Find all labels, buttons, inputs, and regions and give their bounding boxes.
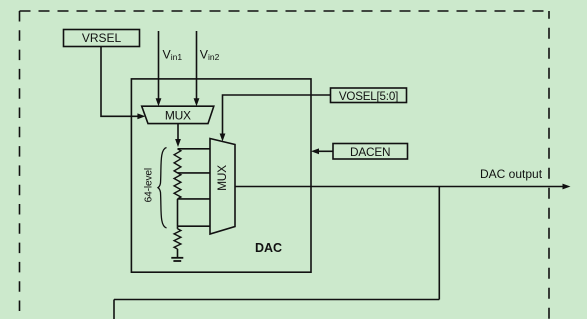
svg-text:MUX: MUX — [165, 109, 191, 123]
node tap 1 wire — [178, 148, 211, 150]
wire feedback exit — [113, 300, 115, 319]
node tap 2 wire — [178, 172, 211, 174]
ground — [171, 258, 183, 261]
wire ladder continuation — [177, 199, 179, 226]
DAC block box — [131, 79, 311, 272]
wire DACEN enable — [311, 148, 333, 154]
svg-text:64-level: 64-level — [143, 168, 154, 202]
svg-text:DAC: DAC — [255, 241, 282, 255]
wire Vin2 input — [194, 31, 200, 106]
node tap 3 wire — [178, 198, 211, 200]
svg-text:MUX: MUX — [215, 165, 229, 191]
wire DAC output — [235, 184, 571, 190]
resistor R2 — [174, 173, 181, 199]
brace 64-level — [158, 148, 167, 229]
input mux U1 (trapezoid) — [142, 106, 214, 123]
wire feedback across — [114, 299, 439, 301]
wire R3 to ground — [177, 249, 179, 257]
VRSEL control box — [64, 30, 140, 47]
wire feedback down — [438, 187, 440, 300]
wire VOSEL to output mux select — [220, 95, 331, 142]
wire input mux to resistor ladder — [175, 124, 181, 147]
svg-text:VRSEL: VRSEL — [82, 31, 122, 45]
svg-text:VOSEL[5:0]: VOSEL[5:0] — [339, 90, 398, 103]
wire Vin1 input — [156, 31, 162, 106]
svg-text:DACEN: DACEN — [350, 145, 390, 159]
VOSEL[5:0] control box — [331, 88, 407, 103]
output mux U2 (vertical trapezoid) — [210, 139, 235, 235]
resistor R1 — [174, 149, 181, 173]
dashed block border right — [548, 11, 550, 319]
dashed block border top — [20, 10, 550, 12]
resistor R3 — [174, 229, 181, 249]
node tap 4 wire — [178, 225, 211, 227]
svg-text:DAC output: DAC output — [480, 167, 543, 181]
dashed block border left — [19, 11, 21, 319]
DACEN control box — [333, 144, 408, 160]
wire VRSEL to MUX select input — [101, 47, 145, 120]
